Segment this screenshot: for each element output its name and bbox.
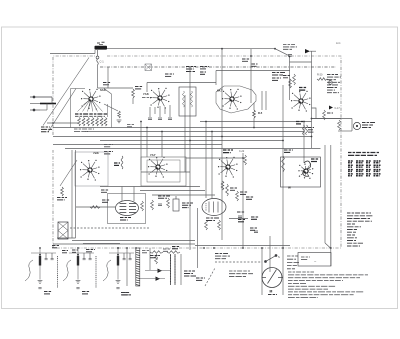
wire: [146, 83, 148, 93]
label R-21: [327, 112, 333, 114]
label bank row b: [72, 250, 78, 252]
antenna terminal: [30, 96, 52, 98]
bus line: [100, 140, 283, 142]
label 7B6 det: [299, 88, 307, 91]
wire: [216, 70, 290, 72]
tuning gang link 2: [48, 89, 76, 133]
label PM speaker: [362, 123, 375, 128]
label near ballast: [142, 251, 149, 253]
junction: [205, 121, 207, 123]
resistor R5: [253, 110, 256, 118]
tube V7 7B6: [218, 157, 238, 178]
wire: [312, 118, 353, 120]
capacitor C9: [158, 204, 162, 206]
power transformer winding A: [170, 254, 172, 285]
resistor R8: [61, 187, 64, 196]
junction: [303, 121, 305, 123]
label under M: [268, 294, 277, 296]
chassis shield frame: [53, 56, 341, 248]
resistor under V7: [226, 184, 229, 196]
label: [57, 198, 67, 200]
wave trap coil assembly: [25, 260, 33, 281]
label cluster right of V4: [327, 75, 341, 93]
label C-6: [114, 163, 120, 165]
svg-text:M: M: [270, 290, 273, 294]
wire: [242, 153, 244, 248]
wire: [197, 208, 199, 268]
wire: [141, 171, 190, 173]
resistor comb under V1: [78, 118, 81, 127]
svg-text:W: W: [288, 186, 291, 190]
junction: [242, 157, 244, 159]
wire: [221, 49, 223, 240]
wire: [195, 245, 290, 247]
label under V9: [120, 218, 131, 221]
coil L7: [282, 156, 285, 172]
label above L7: [284, 150, 293, 152]
wire: [98, 87, 134, 89]
junction: [250, 55, 252, 57]
wire: [83, 243, 120, 245]
resistor R2: [118, 111, 121, 118]
wire: [275, 49, 290, 57]
svg-text:6A8: 6A8: [100, 88, 106, 92]
tube V8 7Y4 rectifier: [298, 163, 313, 179]
resistor R14v: [218, 220, 221, 230]
label under V7: [230, 188, 237, 190]
wire: [327, 79, 331, 81]
resistor R21: [323, 110, 326, 120]
resistor right of V9: [141, 201, 144, 211]
wire: [186, 157, 243, 159]
junction: [311, 118, 313, 120]
V1 surround box left: [70, 92, 72, 128]
resistor R22: [155, 254, 158, 264]
IF transformer can T1: [179, 87, 196, 116]
wire: [152, 194, 215, 196]
wire: [169, 105, 171, 117]
resistor R17: [90, 206, 100, 209]
bus line: [72, 240, 195, 242]
wire: [282, 85, 284, 295]
svg-text:C-1: C-1: [100, 60, 105, 64]
wire: [126, 248, 128, 286]
wire: [47, 122, 78, 124]
coil L6: [244, 155, 247, 165]
junction: [221, 136, 223, 138]
label near V1 top: [103, 83, 111, 85]
tube V4 7B6 det: [291, 91, 311, 112]
resistor R20: [317, 78, 327, 81]
tube socket voltage table rows: [348, 161, 381, 176]
wire: [121, 187, 123, 202]
antenna coil L2: [40, 103, 56, 105]
tube V10 output envelope: [202, 199, 226, 216]
junction: [203, 247, 205, 249]
wire: [184, 95, 186, 172]
capacitor C5: [168, 118, 172, 120]
wire: [104, 104, 118, 111]
volume control R12: [173, 196, 179, 211]
arrow tap: [305, 49, 310, 53]
wire: [330, 145, 332, 266]
wire: [94, 50, 96, 54]
junction: [126, 247, 128, 249]
bus B+ line: [200, 121, 312, 123]
junction: [117, 247, 119, 249]
svg-text:7B8: 7B8: [93, 151, 99, 155]
junction: [161, 131, 163, 133]
tube socket voltage table title: [348, 153, 379, 156]
label mid cluster a: [104, 145, 113, 147]
label mid cluster b: [127, 125, 134, 127]
wire: [211, 132, 213, 199]
capacitor C11: [238, 216, 242, 218]
shield stub left: [41, 103, 53, 105]
vertical legend text A: [57, 256, 59, 288]
power switch S1: [265, 255, 278, 263]
label C-24: [251, 217, 259, 219]
vertical legend text B: [95, 256, 97, 288]
coil left of T2: [121, 156, 123, 169]
shield box bottom: [57, 237, 76, 239]
label near R15: [163, 249, 170, 251]
wire: [100, 186, 200, 188]
label cluster: [238, 220, 245, 222]
wire: [290, 61, 312, 63]
junction: [140, 121, 142, 123]
junction: [282, 140, 284, 142]
junction: [311, 136, 313, 138]
resistor R16: [167, 251, 180, 254]
junction: [330, 247, 332, 249]
junction: [261, 247, 263, 249]
wire elbow: [312, 108, 317, 119]
wire: [250, 49, 252, 103]
pilot arrow: [156, 277, 161, 281]
rectifier shield box: [281, 157, 321, 187]
svg-text:R-5: R-5: [258, 111, 263, 115]
bus line: [53, 243, 195, 245]
wire: [351, 119, 353, 132]
svg-text:7A8: 7A8: [143, 92, 149, 96]
motor M1: [262, 268, 282, 288]
junction: [253, 127, 255, 129]
notes list right: [347, 213, 373, 246]
resistor on dropper: [221, 181, 224, 190]
wire: [325, 243, 331, 248]
label L-28: [44, 292, 52, 294]
svg-text:S: S: [278, 255, 280, 259]
wire: [311, 51, 313, 148]
trimmer capacitor C1: [96, 50, 99, 65]
wire: [107, 48, 275, 50]
bus line: [53, 144, 222, 146]
pilot lamp: [329, 81, 333, 85]
wire: [161, 132, 163, 158]
IF transformer can T2: [141, 157, 186, 186]
wire: [146, 128, 148, 158]
tube V9 envelope: [116, 201, 139, 216]
label R-14: [240, 192, 248, 194]
resistor R10: [151, 200, 154, 210]
label cluster: [196, 278, 205, 280]
label R-9: [246, 197, 254, 199]
label cluster: [184, 271, 196, 276]
junction: [221, 48, 223, 50]
wire: [132, 98, 134, 104]
label in phono box: [301, 257, 310, 259]
phono box: [298, 253, 331, 267]
wire: [46, 104, 48, 111]
label left of V9: [101, 190, 109, 192]
wire: [269, 236, 271, 272]
tube V3 6SK7 IF: [222, 89, 242, 110]
label L-4: [104, 152, 113, 154]
resistor R19: [293, 74, 296, 85]
junction: [52, 122, 54, 124]
wire: [215, 71, 217, 86]
ground terminal: [30, 109, 40, 111]
tone capacitor C12: [254, 231, 258, 233]
svg-text:6K7: 6K7: [217, 89, 223, 93]
label speaker field: [272, 73, 285, 76]
wire: [303, 122, 305, 164]
resistor R13: [205, 220, 208, 230]
fan lead: [78, 101, 89, 112]
bus heater line: [53, 136, 312, 138]
tube V2 7A8 oscillator: [150, 88, 170, 109]
wire: [180, 254, 182, 285]
filament hook: [303, 161, 311, 176]
tube V1 6A8 converter: [81, 89, 101, 110]
coil under V4: [303, 125, 305, 135]
switch box on shield line: [145, 64, 152, 71]
junction: [211, 131, 213, 133]
shield box wall: [71, 150, 73, 238]
wire: [149, 248, 151, 270]
junction: [213, 247, 215, 249]
label: [150, 256, 160, 258]
oscillator coil assembly: [103, 260, 111, 281]
wire: [324, 145, 326, 243]
mech link dashed: [215, 261, 262, 263]
label under 7A8: [142, 97, 152, 99]
wire: [189, 67, 191, 250]
wire: [338, 130, 352, 132]
label R-17: [102, 200, 110, 202]
wire: [76, 206, 115, 208]
tube V3 shield: [216, 86, 256, 113]
wire dashed: [70, 227, 150, 229]
V1 surround box right: [111, 94, 113, 128]
speaker jack J1: [353, 122, 360, 129]
wire: [229, 218, 248, 220]
wire: [261, 248, 263, 295]
wire: [164, 107, 166, 114]
label C-13: [237, 211, 245, 213]
diode arrow: [329, 106, 333, 110]
resistor R6: [289, 79, 292, 88]
label below: [200, 72, 206, 74]
label C-14: [283, 76, 290, 78]
label C-3: [135, 87, 143, 89]
bus line: [65, 148, 321, 150]
wire: [159, 106, 161, 117]
junction: [289, 56, 291, 58]
capacitor C4: [148, 118, 152, 120]
junction: [274, 48, 276, 50]
junction: [242, 247, 244, 249]
ballast resistor strip: [136, 248, 140, 286]
label cluster: [158, 196, 170, 198]
wire: [147, 82, 216, 84]
label right of coil: [308, 128, 314, 133]
tube V9 plates: [120, 203, 127, 205]
wire: [310, 50, 316, 52]
label on shield line: [200, 67, 209, 69]
resistor R3: [132, 89, 135, 98]
label C-21a: [242, 59, 250, 61]
label top: [272, 78, 281, 80]
label bank row a: [62, 251, 68, 253]
label antenna section: [41, 127, 52, 132]
wire: [312, 118, 342, 120]
wire: [140, 190, 205, 192]
bottom notes paragraph: [288, 272, 368, 298]
label text: [215, 254, 230, 259]
label C-29: [82, 292, 90, 294]
label cluster: [182, 203, 193, 208]
loop antenna L1: [95, 42, 108, 49]
label C-21b: [252, 64, 258, 66]
label C-16: [296, 122, 303, 124]
ground: [117, 120, 122, 123]
label row under V1: [75, 113, 108, 115]
svg-text:R-20: R-20: [317, 74, 323, 77]
label above bank: [52, 246, 59, 248]
label R-1: [186, 67, 196, 72]
wire: [154, 107, 156, 114]
V9 box: [108, 194, 146, 224]
inner shield dashed line: [100, 66, 336, 68]
svg-text:A.C.: A.C.: [336, 41, 341, 45]
svg-text:7A7: 7A7: [150, 153, 156, 157]
label cluster2: [250, 228, 257, 230]
V5 shield box: [75, 152, 108, 186]
label: [122, 293, 130, 295]
wire: [140, 122, 142, 171]
rectifier arrow 2: [158, 269, 163, 273]
label row under V1 b: [74, 129, 94, 132]
wire: [51, 97, 53, 104]
wire: [107, 67, 109, 88]
grid cap lead: [97, 65, 99, 88]
junction: [282, 247, 284, 249]
wire: [261, 91, 263, 110]
output transformer coil: [338, 120, 341, 130]
svg-text:C-17: C-17: [335, 107, 341, 110]
tube V6 7A7: [148, 157, 168, 178]
resistor R15: [150, 251, 163, 254]
wire: [149, 107, 151, 117]
right column legend: [287, 256, 299, 269]
capacitor C6: [158, 118, 162, 120]
wire: [133, 187, 135, 202]
tube V5 7B8: [80, 160, 100, 181]
wire: [205, 122, 207, 199]
wire: [253, 118, 255, 128]
label C-15: [283, 45, 297, 50]
junction: [189, 140, 191, 142]
label under V10: [206, 218, 219, 221]
oscillator coil T3: [58, 222, 68, 239]
wire: [253, 103, 255, 110]
label above windings: [172, 247, 180, 249]
label 7B6: [223, 150, 233, 153]
label model text: [229, 271, 253, 276]
wire: [289, 57, 291, 101]
wire: [40, 109, 47, 111]
resistor R11: [167, 198, 170, 208]
resistor R14: [236, 191, 239, 201]
bus line: [85, 131, 304, 133]
capacitor C15: [288, 55, 292, 57]
label above V2: [165, 74, 174, 76]
tuning gang link: [43, 58, 89, 126]
antenna coil assembly: [63, 260, 71, 281]
diagonal gang link 2: [60, 160, 77, 186]
junction: [146, 127, 148, 129]
mech link dashed diagonal: [205, 268, 215, 286]
junction: [135, 247, 137, 249]
power transformer winding B: [174, 254, 176, 285]
label bottom left: [121, 293, 131, 295]
svg-text:C-22: C-22: [239, 150, 245, 153]
vertical legend text C: [57, 256, 59, 288]
wire: [50, 53, 95, 55]
bus AVC line: [53, 127, 312, 129]
label bank row c: [86, 250, 95, 252]
label 7Y4: [311, 159, 319, 162]
